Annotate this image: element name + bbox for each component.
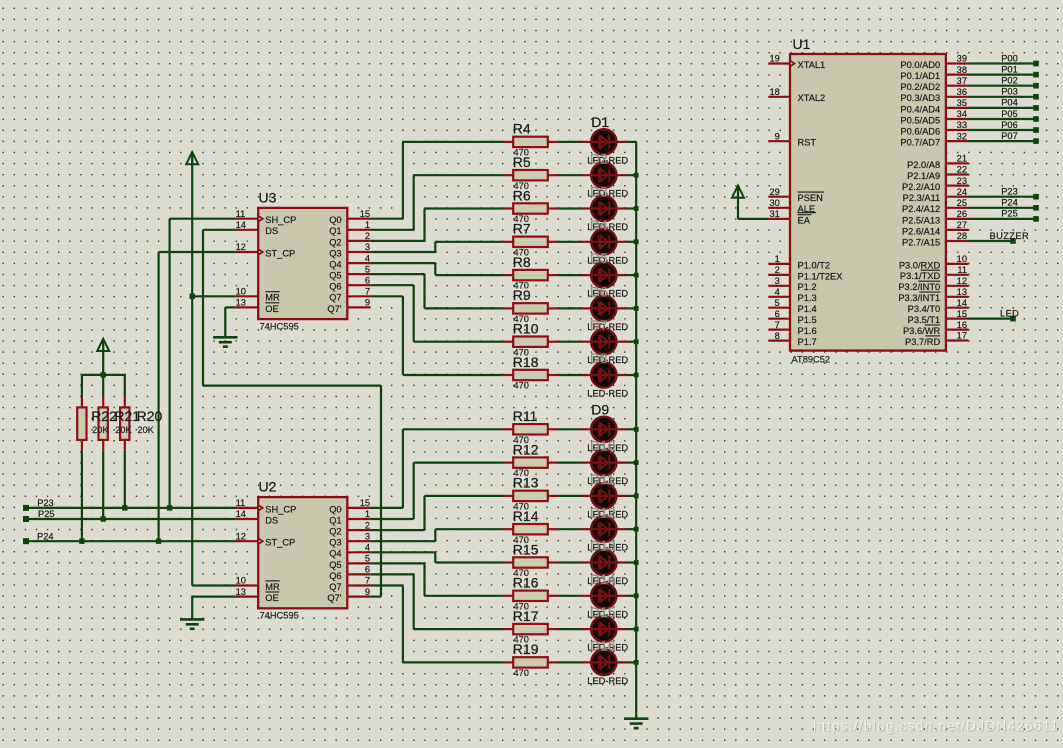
svg-text:SH_CP: SH_CP [265, 504, 296, 514]
svg-text:P1.1/T2EX: P1.1/T2EX [798, 271, 843, 281]
wire D15 cathode to bus [627, 628, 636, 630]
U1 pin 17 P3.7/RD [905, 331, 968, 347]
svg-text:AT89C52: AT89C52 [792, 354, 831, 364]
wire D16 anode [559, 661, 581, 663]
svg-text:BUZZER: BUZZER [990, 231, 1030, 241]
svg-text:3: 3 [365, 242, 370, 252]
R4 value label 470 [514, 148, 529, 158]
U2 pin 1 Q1 [329, 509, 371, 525]
resistor R13 [503, 491, 559, 501]
svg-text:14: 14 [236, 509, 246, 519]
svg-text:R14: R14 [513, 508, 539, 524]
svg-text:Q1: Q1 [329, 226, 341, 236]
wire U2 Q7 to R19 [371, 586, 503, 663]
svg-text:24: 24 [957, 187, 967, 197]
svg-text:R7: R7 [513, 221, 531, 237]
wire D2 anode [559, 174, 581, 176]
wire D5 anode [559, 274, 581, 276]
wire P25 net [969, 218, 1037, 220]
LED D1 LED-RED [581, 129, 628, 154]
junction U3 SH_CP / P23 [167, 505, 172, 510]
D13 designator label (grey) [590, 538, 616, 554]
svg-text:28: 28 [957, 231, 967, 241]
svg-text:P04: P04 [1001, 98, 1018, 108]
svg-text:7: 7 [775, 320, 780, 330]
svg-text:P1.6: P1.6 [798, 326, 817, 336]
svg-text:Q6: Q6 [329, 571, 341, 581]
D2 value label LED-RED [587, 189, 628, 199]
svg-text:Q2: Q2 [329, 237, 341, 247]
svg-text:15: 15 [957, 309, 967, 319]
U1 pin 33 P0.6/AD6 [900, 120, 968, 136]
U1 pin 36 P0.3/AD3 [900, 87, 968, 103]
svg-text:P0.4/AD4: P0.4/AD4 [900, 104, 940, 114]
svg-text:LED-RED: LED-RED [587, 389, 628, 399]
svg-text:6: 6 [365, 275, 370, 285]
D4 value label LED-RED [587, 255, 628, 265]
U2 pin 2 Q2 [329, 520, 371, 536]
node label P24 [1001, 198, 1018, 208]
svg-text:Q4: Q4 [329, 549, 341, 559]
svg-text:14: 14 [236, 220, 246, 230]
svg-text:R10: R10 [513, 321, 539, 337]
svg-text:LED-RED: LED-RED [587, 676, 628, 686]
R14 value label 470 [514, 535, 529, 545]
svg-text:Q1: Q1 [329, 515, 341, 525]
LED D9 LED-RED [581, 417, 628, 442]
junction +V / U3 MR [190, 294, 195, 299]
node label P00 [1001, 53, 1018, 63]
LED D4 LED-RED [581, 229, 628, 254]
svg-text:ST_CP: ST_CP [265, 538, 295, 548]
resistor R15 [503, 557, 559, 567]
svg-text:15: 15 [360, 498, 370, 508]
U1 pin 13 P3.3/INT1 [898, 287, 968, 303]
U1 pin 32 P0.7/AD7 [900, 131, 968, 147]
D1 value label LED-RED [587, 155, 628, 165]
wire D10 cathode to bus [627, 462, 636, 464]
D6 designator label (grey) [590, 284, 608, 300]
svg-text:Q0: Q0 [329, 215, 341, 225]
svg-text:37: 37 [957, 76, 967, 86]
wire D8 cathode to bus [627, 374, 636, 376]
wire D4 cathode to bus [627, 241, 636, 243]
svg-text:P07: P07 [1001, 131, 1018, 141]
svg-text:MR: MR [265, 582, 280, 592]
D3 designator label (grey) [590, 184, 608, 200]
svg-text:P0.5/AD5: P0.5/AD5 [900, 115, 940, 125]
svg-text:Q7': Q7' [327, 304, 341, 314]
junction LED bus [634, 627, 639, 632]
D6 value label LED-RED [587, 322, 628, 332]
wire D12 anode [559, 528, 581, 530]
D3 value label LED-RED [587, 222, 628, 232]
junction LED bus [634, 306, 639, 311]
junction LED bus [634, 460, 639, 465]
U3 pin 13 OE [235, 298, 279, 314]
resistor R17 [503, 624, 559, 634]
power +V arrow (pull-ups) [97, 339, 109, 351]
LED D8 LED-RED [581, 362, 628, 387]
R13 value label 470 [514, 502, 529, 512]
node P23 terminal [23, 505, 29, 511]
node label P07 [1001, 131, 1018, 141]
R7 value label 470 [514, 247, 529, 257]
R9 designator label [513, 287, 531, 303]
R5 value label 470 [514, 181, 529, 191]
U1 pin 31 EA [768, 209, 811, 225]
D14 value label LED-RED [587, 609, 628, 619]
junction R21 / rail [101, 516, 106, 521]
U1 pin 29 PSEN [768, 187, 824, 203]
svg-text:74HC595: 74HC595 [260, 322, 299, 332]
svg-text:4: 4 [365, 253, 370, 263]
junction R20 / rail [122, 505, 127, 510]
node label BUZZER [990, 231, 1030, 241]
R16 designator label [513, 575, 539, 591]
terminal P23 [1033, 194, 1039, 200]
D15 value label LED-RED [587, 643, 628, 653]
LED D10 LED-RED [581, 450, 628, 475]
svg-text:Q0: Q0 [329, 504, 341, 514]
svg-text:U2: U2 [259, 479, 277, 495]
wire U2 Q1 to R12 [371, 463, 503, 519]
svg-text:8: 8 [775, 331, 780, 341]
wire U2 Q3 to R14 [371, 529, 503, 541]
wire +V to U3 MR and U2 MR [192, 163, 235, 586]
svg-text:18: 18 [769, 87, 779, 97]
wire U3 Q5 to R9 [371, 274, 503, 308]
R7 designator label [513, 221, 531, 237]
svg-text:3: 3 [365, 531, 370, 541]
wire LED net [969, 318, 1014, 320]
svg-text:DS: DS [265, 226, 278, 236]
wire U2 OE to ground [192, 597, 235, 620]
svg-text:SH_CP: SH_CP [265, 215, 296, 225]
LED D7 LED-RED [581, 329, 628, 354]
svg-text:22: 22 [957, 165, 967, 175]
LED D16 LED-RED [581, 650, 628, 675]
svg-text:U3: U3 [259, 190, 277, 206]
R11 value label 470 [514, 435, 529, 445]
svg-text:P2.5/A13: P2.5/A13 [902, 215, 940, 225]
U3 pin 2 Q2 [329, 231, 371, 247]
U2 pin 10 MR [235, 576, 280, 592]
junction LED bus [634, 373, 639, 378]
U2 pin 5 Q5 [329, 554, 371, 570]
terminal P04 [1033, 105, 1039, 111]
U1 pin 28 P2.7/A15 [902, 231, 969, 247]
U1 pin 16 P3.6/WR [903, 320, 969, 336]
R8 value label 470 [514, 281, 529, 291]
svg-text:29: 29 [769, 187, 779, 197]
wire D5 cathode to bus [627, 274, 636, 276]
wire BUZZER net [969, 240, 1014, 242]
R11 designator label [513, 408, 538, 424]
terminal P25 [1033, 216, 1039, 222]
wire P03 net [969, 96, 1037, 98]
U1 pin 34 P0.5/AD5 [900, 109, 968, 125]
D9 designator label [591, 401, 609, 417]
svg-text:27: 27 [957, 220, 967, 230]
junction LED bus [634, 560, 639, 565]
svg-text:13: 13 [236, 587, 246, 597]
svg-text:P0.0/AD0: P0.0/AD0 [900, 60, 940, 70]
terminal P24 [1033, 205, 1039, 211]
svg-text:Q6: Q6 [329, 282, 341, 292]
U3 pin 10 MR [235, 287, 280, 303]
terminal P07 [1033, 138, 1039, 144]
wire D1 anode [559, 141, 581, 143]
svg-text:R19: R19 [513, 641, 539, 657]
wire U2 Q4 to R15 [371, 552, 503, 562]
D15 designator label (grey) [590, 604, 616, 620]
wire U3 Q6 to R10 [371, 285, 503, 342]
svg-text:Q3: Q3 [329, 538, 341, 548]
svg-text:P1.4: P1.4 [798, 304, 817, 314]
svg-text:10: 10 [236, 287, 246, 297]
wire U3 OE to ground [225, 307, 235, 337]
resistor R22 [77, 375, 86, 541]
terminal P02 [1033, 83, 1039, 89]
D12 designator label (grey) [590, 504, 616, 520]
R22 value label 20K [92, 425, 109, 435]
svg-text:R4: R4 [513, 121, 531, 137]
U1 designator label [793, 36, 811, 52]
U3 pin 4 Q4 [329, 253, 371, 269]
U1 pin 9 RST [768, 131, 816, 147]
resistor R21 [99, 375, 108, 519]
node P25 terminal [23, 516, 29, 522]
resistor R11 [503, 424, 559, 434]
D12 value label LED-RED [587, 543, 628, 553]
svg-text:R22: R22 [91, 408, 117, 424]
svg-text:P2.3/A11: P2.3/A11 [903, 193, 941, 203]
svg-text:https://blog.csdn.net/DJDN4266: https://blog.csdn.net/DJDN426611 [813, 719, 1059, 734]
svg-text:26: 26 [957, 209, 967, 219]
D11 value label LED-RED [587, 509, 628, 519]
wire U2 Q6 to R17 [371, 574, 503, 629]
junction LED bus [634, 206, 639, 211]
svg-text:Q7: Q7 [329, 582, 341, 592]
U3 pin 12 ST_CP [235, 242, 295, 258]
U1 pin 38 P0.1/AD1 [900, 65, 968, 81]
svg-text:P2.2/A10: P2.2/A10 [902, 182, 940, 192]
U1 pin 27 P2.6/A14 [902, 220, 969, 236]
svg-text:R20: R20 [137, 408, 163, 424]
U2 pin 6 Q6 [329, 565, 371, 581]
svg-text:P06: P06 [1001, 120, 1018, 130]
wire P01 net [969, 73, 1037, 75]
D16 value label LED-RED [587, 676, 628, 686]
U1 pin 23 P2.2/A10 [902, 176, 969, 192]
U1 pin 10 P3.0/RXD [899, 254, 969, 270]
svg-text:MR: MR [265, 293, 280, 303]
svg-text:470: 470 [514, 381, 529, 391]
R19 designator label [513, 641, 539, 657]
power +V arrow for U1 EA [732, 186, 768, 219]
D5 value label LED-RED [587, 289, 628, 299]
svg-text:13: 13 [957, 287, 967, 297]
R6 designator label [513, 187, 531, 203]
wire P25 rail [26, 518, 235, 520]
ground for LED bus [624, 719, 648, 728]
LED D5 LED-RED [581, 263, 628, 288]
U2 pin 7 Q7 [329, 576, 371, 592]
svg-text:12: 12 [957, 276, 967, 286]
U1 pin 21 P2.0/A8 [907, 154, 968, 170]
svg-text:D10: D10 [590, 438, 616, 454]
watermark [813, 719, 1060, 735]
U1 pin 37 P0.2/AD2 [900, 76, 968, 92]
svg-text:P00: P00 [1001, 53, 1018, 63]
svg-text:Q5: Q5 [329, 560, 341, 570]
wire U2 Q2 to R13 [371, 496, 503, 530]
R16 value label 470 [514, 601, 529, 611]
wire D1 cathode to bus [627, 141, 636, 143]
svg-text:R16: R16 [513, 575, 539, 591]
U1 pin 7 P1.6 [768, 320, 816, 336]
svg-text:16: 16 [957, 320, 967, 330]
U1 pin 2 P1.1/T2EX [768, 265, 842, 281]
wire U2 Q5 to R16 [371, 563, 503, 595]
svg-text:R18: R18 [513, 354, 539, 370]
svg-text:12: 12 [236, 531, 246, 541]
D13 value label LED-RED [587, 576, 628, 586]
svg-text:32: 32 [957, 131, 967, 141]
U2 pin 13 OE [235, 587, 279, 603]
svg-text:ST_CP: ST_CP [265, 248, 295, 258]
LED D12 LED-RED [581, 517, 628, 542]
resistor R12 [503, 457, 559, 467]
LED D2 LED-RED [581, 163, 628, 188]
svg-text:36: 36 [957, 87, 967, 97]
svg-text:D7: D7 [590, 317, 608, 333]
R14 designator label [513, 508, 539, 524]
wire P05 net [969, 118, 1037, 120]
U1 pin 12 P3.2/INT0 [898, 276, 968, 292]
U2 pin 11 SH_CP [235, 498, 296, 514]
terminal BUZZER [1010, 238, 1016, 244]
R6 value label 470 [514, 214, 529, 224]
74HC595 shift register U2 body [258, 497, 347, 608]
R18 designator label [513, 354, 539, 370]
svg-text:D13: D13 [590, 538, 616, 554]
svg-text:11: 11 [957, 265, 967, 275]
R13 designator label [513, 475, 539, 491]
D11 designator label (grey) [590, 471, 615, 487]
svg-text:17: 17 [957, 331, 967, 341]
svg-text:P3.3/INT1: P3.3/INT1 [898, 293, 940, 303]
svg-text:20K: 20K [138, 425, 155, 435]
svg-text:D6: D6 [590, 284, 608, 300]
svg-text:P03: P03 [1001, 87, 1018, 97]
wire D10 anode [559, 462, 581, 464]
U1 pin 15 P3.5/T1 [908, 309, 969, 325]
svg-text:P05: P05 [1001, 109, 1018, 119]
svg-text:6: 6 [365, 565, 370, 575]
wire D13 anode [559, 561, 581, 563]
LED D3 LED-RED [581, 196, 628, 221]
svg-text:R9: R9 [513, 287, 531, 303]
svg-text:Q4: Q4 [329, 260, 341, 270]
svg-text:P3.2/INT0: P3.2/INT0 [898, 282, 940, 292]
svg-text:15: 15 [360, 209, 370, 219]
U1 pin 3 P1.2 [768, 276, 816, 292]
R8 designator label [513, 254, 531, 270]
svg-text:2: 2 [775, 265, 780, 275]
R15 value label 470 [514, 568, 529, 578]
svg-text:P1.3: P1.3 [798, 293, 817, 303]
svg-text:13: 13 [236, 298, 246, 308]
svg-text:P2.4/A12: P2.4/A12 [902, 204, 940, 214]
resistor R6 [503, 203, 559, 213]
terminal LED [1010, 316, 1016, 322]
svg-text:P0.3/AD3: P0.3/AD3 [900, 93, 940, 103]
resistor R9 [503, 303, 559, 313]
svg-text:39: 39 [957, 54, 967, 64]
svg-text:D2: D2 [590, 150, 608, 166]
wire LED cathode bus [635, 142, 637, 719]
U2 designator label [259, 479, 277, 495]
svg-text:11: 11 [236, 498, 246, 508]
junction +V header [101, 372, 106, 377]
U3 pin 9 Q7' [327, 298, 370, 314]
svg-text:P3.0/RXD: P3.0/RXD [899, 260, 941, 270]
R12 value label 470 [514, 468, 529, 478]
D7 designator label (grey) [590, 317, 608, 333]
junction LED bus [634, 239, 639, 244]
R10 designator label [513, 321, 539, 337]
resistor R10 [503, 337, 559, 347]
wire P04 net [969, 107, 1037, 109]
wire U3 Q7 to R18 [371, 296, 503, 375]
power +V arrow (top) [186, 152, 198, 164]
R21 designator label [114, 408, 140, 424]
node label P06 [1001, 120, 1018, 130]
wire P06 net [969, 129, 1037, 131]
svg-text:P23: P23 [37, 498, 54, 508]
U3 pin 14 DS [235, 220, 278, 236]
svg-text:5: 5 [365, 264, 370, 274]
wire D8 anode [559, 374, 581, 376]
svg-text:34: 34 [957, 109, 967, 119]
ground for U2 OE [180, 619, 204, 628]
svg-text:D12: D12 [590, 504, 616, 520]
svg-text:P23: P23 [1001, 187, 1018, 197]
wire U3 Q4 to R8 [371, 263, 503, 275]
svg-text:P0.2/AD2: P0.2/AD2 [900, 82, 940, 92]
node P24 terminal [23, 538, 29, 544]
U3 pin 6 Q6 [329, 275, 371, 291]
D1 designator label [591, 114, 609, 130]
U1 value label AT89C52 [792, 354, 831, 364]
svg-text:7: 7 [365, 287, 370, 297]
svg-text:9: 9 [365, 587, 370, 597]
U1 pin 35 P0.4/AD4 [900, 98, 968, 114]
svg-text:1: 1 [775, 254, 780, 264]
junction R22 / rail [79, 539, 84, 544]
junction LED bus [634, 427, 639, 432]
resistor R7 [503, 237, 559, 247]
node label P25 [1001, 209, 1018, 219]
svg-text:P24: P24 [37, 531, 54, 541]
R20 designator label [137, 408, 163, 424]
node label P25 [38, 509, 55, 519]
svg-text:20K: 20K [92, 425, 109, 435]
R22 designator label [91, 408, 117, 424]
svg-text:P1.5: P1.5 [798, 315, 817, 325]
